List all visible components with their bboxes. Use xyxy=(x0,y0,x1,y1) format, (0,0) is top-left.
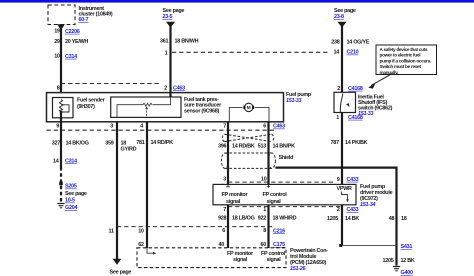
wire: 787 14 PK/BK from IFS pin 1 to FPDM pin 9 xyxy=(341,113,343,185)
svg-text:GY/RD: GY/RD xyxy=(121,146,137,152)
ground G204 xyxy=(57,204,77,212)
PCM FP monitor signal text xyxy=(227,251,254,263)
svg-text:40: 40 xyxy=(219,242,225,248)
value label circuit 29 20 YE/WH xyxy=(54,39,88,45)
svg-text:11: 11 xyxy=(109,228,114,234)
svg-text:signal: signal xyxy=(267,199,282,205)
svg-text:FP control: FP control xyxy=(263,192,288,198)
svg-text:29: 29 xyxy=(54,39,60,45)
value label circuit 396 14 RD/BK xyxy=(218,143,255,149)
wiper dashed arrow in transducer xyxy=(145,106,148,116)
pin 14 connector C210 xyxy=(334,50,359,56)
svg-text:power to electric fuel: power to electric fuel xyxy=(380,53,421,58)
pin 10 connector C314 xyxy=(54,54,77,60)
IFS switch label xyxy=(358,94,393,117)
svg-text:VPWR: VPWR xyxy=(337,186,353,192)
wire: 781 14 RD/PK from pin 4 to PCM pin 62 xyxy=(146,122,148,248)
svg-text:18 WH/RD: 18 WH/RD xyxy=(273,215,297,221)
switch blade xyxy=(340,94,349,113)
pin 19 connector C2206 xyxy=(54,28,80,34)
svg-text:60-7: 60-7 xyxy=(79,17,89,23)
resistor (fuel sender variable resistor) xyxy=(59,100,62,112)
top blue banner xyxy=(0,0,474,3)
svg-text:Shield: Shield xyxy=(279,155,294,161)
svg-text:18 LB/OG: 18 LB/OG xyxy=(232,215,255,221)
pin 60 PCM / connector C175 xyxy=(261,242,286,248)
svg-text:3: 3 xyxy=(110,124,113,130)
svg-text:20 YE/WH: 20 YE/WH xyxy=(65,39,88,45)
see page 10-5 note xyxy=(65,191,87,203)
annotation note box (safety device) xyxy=(376,45,437,75)
value label circuit 513 14 BN/PK xyxy=(258,143,295,149)
see page arrow bottom left xyxy=(110,259,132,276)
svg-text:23-8: 23-8 xyxy=(334,14,344,20)
svg-text:1205: 1205 xyxy=(327,216,338,222)
fuel pump motor M xyxy=(243,103,254,111)
svg-text:3: 3 xyxy=(223,177,226,183)
annotation arrow to IFS switch xyxy=(368,75,390,89)
FPDM label xyxy=(360,184,393,208)
wire: 1205 12 BK to ground G400 xyxy=(395,246,397,266)
connector C463 dashed line (bottom, long) xyxy=(47,129,275,131)
connector C433 dashed line top xyxy=(228,181,334,183)
svg-text:60: 60 xyxy=(261,242,267,248)
svg-text:14 RD/BK: 14 RD/BK xyxy=(232,143,255,149)
svg-text:359: 359 xyxy=(105,140,113,146)
svg-text:See page: See page xyxy=(65,191,87,197)
pin 14 connector C314 xyxy=(53,158,77,164)
svg-text:C216: C216 xyxy=(273,228,285,234)
svg-text:C314: C314 xyxy=(65,54,77,60)
svg-text:pump if a collision occurs.: pump if a collision occurs. xyxy=(380,58,432,63)
connector C463 dashed line (top) xyxy=(61,83,161,85)
svg-text:7: 7 xyxy=(223,124,226,130)
svg-text:2: 2 xyxy=(337,207,340,213)
fuel pump driver module (9C972) box xyxy=(213,184,356,204)
value label circuit 361 18 BN/WH xyxy=(160,38,199,44)
svg-text:C463: C463 xyxy=(173,85,185,91)
PCM label xyxy=(290,248,328,272)
svg-text:6: 6 xyxy=(263,124,266,130)
svg-text:Fuel sender: Fuel sender xyxy=(77,98,106,104)
svg-text:18 BN/WH: 18 BN/WH xyxy=(175,38,199,44)
svg-text:1205: 1205 xyxy=(383,258,394,264)
svg-text:151-33: 151-33 xyxy=(286,98,302,104)
fuel tank pressure transducer sensor (9C968) inner box xyxy=(111,97,181,117)
twisted pair symbol xyxy=(222,134,273,141)
svg-text:(9H307): (9H307) xyxy=(77,104,95,110)
wire: 928 18 LB/OG FPDM to PCM xyxy=(227,205,229,248)
svg-text:14 RD/PK: 14 RD/PK xyxy=(151,140,174,146)
svg-text:10: 10 xyxy=(54,54,60,60)
svg-text:FP control: FP control xyxy=(261,251,286,257)
svg-text:C433: C433 xyxy=(347,177,359,183)
svg-text:C4168: C4168 xyxy=(348,86,363,92)
motor connection wires inside box xyxy=(229,107,269,121)
pin 9 connector C433 xyxy=(337,177,359,183)
FP control signal text xyxy=(263,192,288,205)
svg-text:151-34: 151-34 xyxy=(360,202,376,208)
PCM internal hook arrow on pin 62 xyxy=(147,248,156,255)
svg-text:14 BN/PK: 14 BN/PK xyxy=(273,143,296,149)
value label circuit 781 14 RD/PK xyxy=(136,140,173,146)
pin 2 connector C433 xyxy=(337,207,359,213)
wire stub pin 3 inside FPDM xyxy=(226,184,230,186)
svg-text:18: 18 xyxy=(401,216,407,222)
svg-text:14 OG/YE: 14 OG/YE xyxy=(347,40,370,46)
svg-text:G204: G204 xyxy=(65,205,77,211)
wire: 1205 14 BK FPDM ground to S431 xyxy=(341,205,343,246)
svg-text:6: 6 xyxy=(222,228,225,234)
value label circuit 238 14 OG/YE xyxy=(331,40,369,46)
IFS inertia fuel shutoff switch (9C862) box xyxy=(337,86,363,92)
pin 6 connector C463 xyxy=(263,124,285,130)
svg-text:C210: C210 xyxy=(347,50,359,56)
svg-text:787: 787 xyxy=(330,140,338,146)
see page 23-8 arrow into wire 238 xyxy=(334,8,356,27)
svg-text:See page: See page xyxy=(110,269,132,275)
svg-text:A safety device that cuts: A safety device that cuts xyxy=(380,47,428,52)
svg-text:C314: C314 xyxy=(65,158,77,164)
svg-text:151-26: 151-26 xyxy=(290,266,307,272)
value label circuit 1205 14 BK xyxy=(327,216,359,222)
svg-text:361: 361 xyxy=(160,38,168,44)
svg-text:513: 513 xyxy=(258,143,266,149)
svg-text:928: 928 xyxy=(218,215,226,221)
svg-text:manually.: manually. xyxy=(380,70,399,75)
svg-text:10-5: 10-5 xyxy=(65,198,75,204)
wire: shield drain to S431 xyxy=(275,168,396,246)
powertrain control module PCM dashed box xyxy=(137,248,286,268)
svg-text:48: 48 xyxy=(389,216,395,222)
svg-text:9: 9 xyxy=(56,124,59,130)
shield symbol around pair xyxy=(221,153,275,168)
svg-text:19: 19 xyxy=(54,28,60,34)
svg-text:10: 10 xyxy=(138,228,144,234)
value label circuit 787 14 PK/BK xyxy=(330,140,367,146)
svg-text:M: M xyxy=(247,105,251,111)
svg-text:FP monitor: FP monitor xyxy=(227,251,254,257)
svg-text:781: 781 xyxy=(136,140,144,146)
value label circuit 359 18 GY/RD xyxy=(105,140,136,152)
svg-text:signal: signal xyxy=(267,257,282,263)
svg-text:C433: C433 xyxy=(347,207,359,213)
ground G400 xyxy=(393,267,413,276)
svg-text:23-5: 23-5 xyxy=(163,14,173,20)
svg-text:9: 9 xyxy=(337,177,340,183)
fuel pump label xyxy=(286,92,312,104)
svg-text:7: 7 xyxy=(223,207,226,213)
svg-text:238: 238 xyxy=(331,40,339,46)
svg-text:G400: G400 xyxy=(401,270,413,276)
wire: 359 18 GY/RD from pin 3 to PCM arrow xyxy=(116,122,118,260)
svg-text:2: 2 xyxy=(337,86,340,92)
connector C216 dashed line xyxy=(117,226,272,228)
svg-text:327: 327 xyxy=(52,141,60,147)
wiper arm of fuel sender xyxy=(60,104,69,114)
PCM FP control signal text xyxy=(261,251,286,263)
svg-text:62: 62 xyxy=(138,242,144,248)
svg-text:14: 14 xyxy=(334,50,340,56)
svg-text:2: 2 xyxy=(164,85,167,91)
svg-text:C175: C175 xyxy=(273,242,285,248)
value label circuit 922 18 WH/RD xyxy=(258,215,297,221)
pin 2 connector C463 xyxy=(164,85,185,91)
svg-text:1: 1 xyxy=(263,207,266,213)
svg-text:8: 8 xyxy=(57,85,60,91)
svg-text:signal: signal xyxy=(233,257,248,263)
transducer label xyxy=(184,97,222,115)
transducer internal wiring xyxy=(117,97,171,117)
svg-text:signal: signal xyxy=(226,199,241,205)
value label circuit 327 14 BK/OG xyxy=(52,141,89,147)
value label circuit 928 18 LB/OG xyxy=(218,215,255,221)
value label circuit 1205 12 BK xyxy=(383,258,415,264)
wire: 327 14 BK/OG ground wire from pin 9 xyxy=(60,122,62,167)
wire stub pin 10 inside FPDM xyxy=(267,184,270,187)
fuel pump / sender assembly box xyxy=(47,93,284,122)
fuel sender (9H307) inner box xyxy=(53,98,74,118)
svg-text:1: 1 xyxy=(165,50,168,56)
svg-text:396: 396 xyxy=(218,143,226,149)
svg-text:4: 4 xyxy=(140,124,143,130)
svg-text:14 PK/BK: 14 PK/BK xyxy=(345,140,368,146)
svg-text:Switch must be reset: Switch must be reset xyxy=(380,64,422,69)
svg-text:S205: S205 xyxy=(65,184,77,190)
wire: instrument cluster to fuel sender pin 8 (20 YE/WH) xyxy=(60,25,62,92)
VPWR internal symbol xyxy=(342,192,349,203)
instrument cluster U1 (10849) dashed box xyxy=(48,5,113,30)
svg-text:1: 1 xyxy=(336,115,339,121)
svg-text:FP monitor: FP monitor xyxy=(222,192,249,198)
svg-text:C463: C463 xyxy=(273,124,285,130)
svg-text:14 BK: 14 BK xyxy=(345,216,359,222)
svg-text:922: 922 xyxy=(258,215,266,221)
see page 23-5 arrow into wire 361 xyxy=(163,8,185,27)
wire: 922 18 WH/RD FPDM to PCM xyxy=(267,205,269,248)
svg-text:14: 14 xyxy=(53,159,59,165)
svg-text:sensor (9C968): sensor (9C968) xyxy=(184,108,220,114)
splice S205 xyxy=(59,182,77,190)
wire: 513 14 BN/PK twisted pair right xyxy=(267,122,269,185)
connector C210 dashed line xyxy=(172,51,329,53)
svg-text:14 BK/OG: 14 BK/OG xyxy=(66,141,89,147)
wire: 361 18 BN/WH down to transducer pin 2 xyxy=(169,24,171,97)
svg-text:S431: S431 xyxy=(401,244,413,250)
svg-text:12 BK: 12 BK xyxy=(401,258,415,264)
svg-text:151-33: 151-33 xyxy=(358,111,374,117)
FP monitor signal text xyxy=(222,192,249,205)
wire: 238 14 OG/YE down to IFS switch pin 2 xyxy=(341,24,343,92)
value label drain wire 48 18 xyxy=(389,216,407,222)
splice S431 line xyxy=(339,244,412,250)
dashed wire to ground G204 xyxy=(60,167,62,203)
resistor element in transducer xyxy=(143,103,152,106)
svg-text:8: 8 xyxy=(263,228,266,234)
svg-text:C2206: C2206 xyxy=(65,29,80,35)
fuel sender label xyxy=(77,98,106,110)
pin 8 C216 xyxy=(263,228,285,234)
wire: 396 14 RD/BK twisted pair left xyxy=(227,122,229,185)
connector C433 dashed line bottom xyxy=(228,206,343,208)
